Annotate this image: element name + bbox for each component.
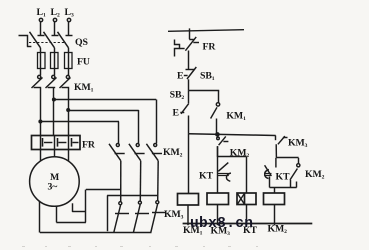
- svg-text:E: E: [177, 71, 184, 82]
- svg-text:FU: FU: [77, 57, 90, 68]
- svg-text:KT: KT: [276, 172, 291, 183]
- svg-text:KT: KT: [199, 171, 214, 182]
- svg-text:QS: QS: [75, 37, 89, 48]
- svg-text:ubx8.cn: ubx8.cn: [190, 216, 253, 232]
- svg-text:E: E: [173, 108, 180, 119]
- svg-text:3~: 3~: [48, 182, 59, 193]
- svg-text:FR: FR: [203, 42, 217, 53]
- svg-text:FR: FR: [82, 140, 96, 151]
